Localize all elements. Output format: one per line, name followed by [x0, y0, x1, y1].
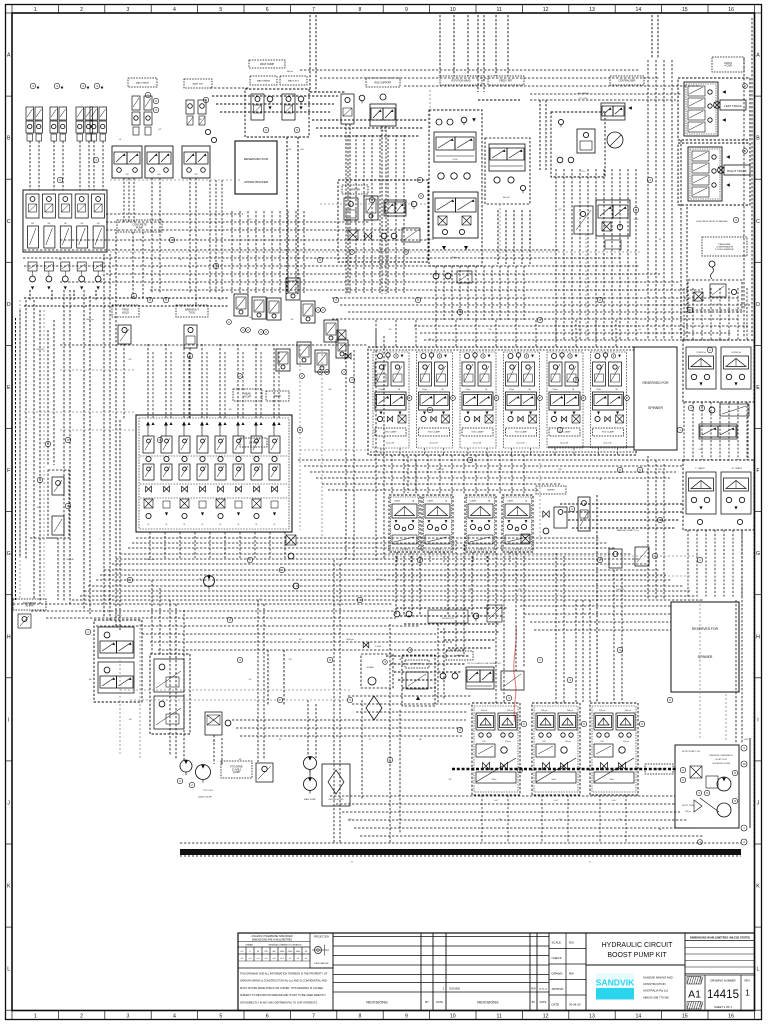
svg-text:DIMENSIONS ARE IN MILLIMETRES: DIMENSIONS ARE IN MILLIMETRES: [252, 938, 293, 941]
svg-text:SPINNER: SPINNER: [648, 406, 663, 410]
svg-text:CENT: CENT: [633, 219, 639, 221]
svg-text:RESERVED FOR: RESERVED FOR: [692, 627, 719, 631]
svg-text:CLR 400: CLR 400: [401, 549, 408, 551]
svg-text:240 psi: 240 psi: [625, 710, 632, 712]
svg-text:15: 15: [682, 1014, 688, 1020]
svg-text:240cc: 240cc: [609, 779, 614, 781]
svg-text:N/S: N/S: [569, 941, 574, 945]
svg-text:J: J: [7, 800, 10, 806]
svg-text:9: 9: [405, 1014, 408, 1020]
svg-text:9: 9: [405, 7, 408, 13]
svg-text:210 psi 3/8: 210 psi 3/8: [473, 443, 481, 445]
svg-text:TOOL: TOOL: [189, 311, 196, 314]
svg-text:220: 220: [126, 174, 129, 176]
svg-text:OR INDIRECTLY IN ANY WAY DETRI: OR INDIRECTLY IN ANY WAY DETRIMENTAL TO …: [240, 1001, 318, 1004]
svg-text:DATE: DATE: [552, 1003, 560, 1007]
svg-text:ABN 82 008 779 362: ABN 82 008 779 362: [643, 995, 669, 999]
svg-text:SUBJECT TO RETURN ON DEMAND AN: SUBJECT TO RETURN ON DEMAND AND IS NOT T…: [240, 994, 326, 997]
svg-text:21 A/9L2: 21 A/9L2: [232, 768, 242, 771]
svg-text:ROD CLAMP: ROD CLAMP: [428, 431, 441, 434]
svg-text:2M ROD: 2M ROD: [249, 442, 258, 444]
svg-text:CURVE 1A: CURVE 1A: [696, 351, 706, 354]
svg-text:210 psi 3/8: 210 psi 3/8: [429, 443, 437, 445]
svg-text:1: 1: [34, 7, 37, 13]
svg-text:DATE: DATE: [540, 1000, 547, 1004]
svg-text:MAST EXT: MAST EXT: [288, 79, 300, 82]
svg-text:RESERVED FOR: RESERVED FOR: [244, 157, 269, 161]
svg-text:ROTATION HEAD: ROTATION HEAD: [451, 79, 471, 82]
svg-text:160 L/M: 160 L/M: [503, 197, 510, 199]
svg-text:CLAMP: CLAMP: [507, 500, 514, 503]
svg-text:8: 8: [359, 7, 362, 13]
svg-text:D: D: [7, 302, 11, 308]
svg-text:ISSUED: ISSUED: [449, 987, 461, 991]
svg-text:210psi: 210psi: [553, 389, 559, 391]
svg-text:ROD CLAMP: ROD CLAMP: [515, 431, 528, 434]
svg-text:SANDVIK PUMP 2.5 cc: SANDVIK PUMP 2.5 cc: [617, 529, 641, 532]
svg-text:8L: 8L: [238, 524, 240, 526]
svg-text:DATE: DATE: [436, 1000, 443, 1004]
svg-text:160 L/M: 160 L/M: [36, 349, 44, 351]
svg-text:C: C: [7, 219, 11, 225]
svg-text:UPPER BRAKER: UPPER BRAKER: [244, 180, 269, 184]
svg-text:CLAMP: CLAMP: [394, 500, 401, 503]
svg-text:12: 12: [543, 1014, 549, 1020]
svg-text:8L: 8L: [220, 524, 222, 526]
svg-text:PUMP: PUMP: [136, 225, 144, 229]
svg-text:B: B: [7, 136, 11, 142]
svg-text:CLR 400: CLR 400: [434, 549, 441, 551]
svg-text:CLR 400: CLR 400: [514, 549, 521, 551]
svg-text:7: 7: [312, 1014, 315, 1020]
svg-text:2W: 2W: [31, 223, 34, 225]
svg-text:ROD CLAMP: ROD CLAMP: [472, 431, 485, 434]
svg-text:3000 psi: 3000 psi: [376, 579, 384, 581]
svg-text:LINEAR: LINEAR: [245, 944, 253, 947]
svg-text:BOOST PUMP 7 L/M: BOOST PUMP 7 L/M: [682, 751, 700, 753]
svg-text:A1: A1: [688, 989, 701, 1001]
svg-text:FIRST ANGLE: FIRST ANGLE: [314, 962, 329, 965]
svg-text:3000 psi: 3000 psi: [346, 639, 354, 641]
svg-text:240 psi: 240 psi: [507, 710, 514, 712]
svg-text:30-04-20: 30-04-20: [569, 1003, 581, 1007]
svg-text:8L: 8L: [202, 524, 204, 526]
svg-text:2W: 2W: [64, 223, 67, 225]
svg-text:E: E: [7, 385, 11, 391]
svg-text:13: 13: [589, 1014, 595, 1020]
svg-text:240cc: 240cc: [551, 779, 556, 781]
svg-text:3/8: 3/8: [291, 319, 294, 321]
svg-text:210psi: 210psi: [596, 389, 602, 391]
svg-text:K: K: [7, 884, 11, 890]
svg-text:240 psi: 240 psi: [685, 811, 691, 813]
svg-text:K: K: [756, 884, 760, 890]
svg-text:220: 220: [195, 174, 198, 176]
svg-text:8k: 8k: [305, 951, 307, 953]
svg-text:RESERVED FOR: RESERVED FOR: [643, 381, 670, 385]
svg-text:L.H.7: L.H.7: [494, 800, 499, 802]
svg-text:210 psi 3/8: 210 psi 3/8: [560, 443, 568, 445]
svg-text:1: 1: [745, 988, 750, 998]
svg-text:HOLD: HOLD: [122, 311, 129, 314]
svg-text:MAST RAISE: MAST RAISE: [136, 81, 150, 84]
svg-text:160 L/M: 160 L/M: [426, 239, 434, 241]
svg-text:2W: 2W: [47, 223, 50, 225]
svg-text:2W: 2W: [80, 223, 83, 225]
svg-text:DIMENSIONS IN MILLIMETRES UNL: DIMENSIONS IN MILLIMETRES UNLESS STATED: [690, 935, 750, 939]
svg-text:C: C: [756, 219, 760, 225]
svg-text:3: 3: [127, 1014, 130, 1020]
svg-text:BOOST PUMP KIT: BOOST PUMP KIT: [607, 952, 667, 959]
svg-text:MANIFOLD: MANIFOLD: [654, 768, 665, 771]
svg-text:BY: BY: [425, 1000, 429, 1004]
svg-text:H: H: [756, 634, 760, 640]
svg-text:400 BAR: 400 BAR: [366, 666, 374, 669]
svg-text:14 BAR: 14 BAR: [114, 614, 122, 617]
svg-text:160 L/M: 160 L/M: [436, 469, 444, 471]
svg-text:ROD CLAMP: ROD CLAMP: [602, 431, 615, 434]
svg-text:210 psi 3/8: 210 psi 3/8: [386, 443, 394, 445]
svg-text:SCALE: SCALE: [552, 941, 562, 945]
svg-text:DRAWN: DRAWN: [552, 972, 563, 976]
svg-text:240cc: 240cc: [491, 779, 496, 781]
svg-text:200 psi: 200 psi: [565, 741, 571, 743]
svg-text:210 psi: 210 psi: [541, 710, 548, 712]
svg-text:14: 14: [636, 7, 642, 13]
svg-text:200 psi: 200 psi: [505, 741, 511, 743]
svg-text:PTO CSO: PTO CSO: [203, 790, 213, 792]
svg-text:AUSTRALIA Pty Ltd: AUSTRALIA Pty Ltd: [643, 989, 668, 993]
svg-text:MUFFLER: MUFFLER: [412, 664, 422, 666]
svg-text:E: E: [756, 385, 760, 391]
svg-text:210psi: 210psi: [422, 389, 428, 391]
svg-text:2: 2: [80, 7, 83, 13]
svg-text:CHECK: CHECK: [552, 956, 562, 960]
svg-text:RETURN FILTER: RETURN FILTER: [329, 799, 344, 801]
svg-text:2W: 2W: [97, 223, 100, 225]
svg-text:3: 3: [127, 7, 130, 13]
svg-text:BOOST 7GPM: BOOST 7GPM: [682, 805, 694, 807]
svg-text:10: 10: [450, 1014, 456, 1020]
svg-text:G: G: [756, 551, 760, 557]
svg-text:160 L/M: 160 L/M: [66, 559, 74, 561]
svg-text:MAST RAISE: MAST RAISE: [257, 79, 271, 82]
svg-text:0-200: 0-200: [453, 159, 458, 161]
svg-text:DRIFTER: DRIFTER: [350, 189, 360, 191]
svg-text:F: F: [7, 468, 10, 474]
svg-text:4 CNR: 4 CNR: [724, 65, 731, 68]
svg-text:REVISIONS: REVISIONS: [366, 1000, 388, 1005]
svg-text:3000 psi: 3000 psi: [146, 559, 154, 561]
svg-text:HOLDBACK: HOLDBACK: [577, 92, 590, 95]
svg-text:J: J: [757, 800, 760, 806]
svg-text:1 GPM: 1 GPM: [375, 646, 381, 648]
svg-text:D: D: [756, 302, 760, 308]
svg-text:11: 11: [497, 1014, 502, 1020]
svg-text:220: 220: [158, 174, 161, 176]
svg-text:11: 11: [497, 7, 502, 13]
svg-text:QL/RP: QL/RP: [233, 772, 240, 774]
svg-text:210psi: 210psi: [379, 389, 385, 391]
svg-text:B: B: [756, 136, 760, 142]
svg-text:15: 15: [682, 7, 688, 13]
svg-text:MAIN PUMP: MAIN PUMP: [304, 798, 316, 801]
svg-text:A: A: [7, 53, 11, 59]
svg-text:210 psi: 210 psi: [599, 710, 606, 712]
svg-text:REVISIONS: REVISIONS: [477, 1000, 499, 1005]
svg-text:5: 5: [219, 7, 222, 13]
svg-text:FEED: FEED: [274, 395, 281, 398]
svg-text:8: 8: [359, 1014, 362, 1020]
svg-text:ROD CLAMP: ROD CLAMP: [385, 431, 398, 434]
svg-text:6: 6: [266, 7, 269, 13]
svg-text:4: 4: [173, 7, 176, 13]
svg-text:I: I: [8, 717, 9, 723]
svg-text:14415: 14415: [744, 739, 749, 741]
svg-text:CENTRALISER: CENTRALISER: [619, 79, 636, 82]
svg-text:75%: 75%: [581, 171, 585, 173]
svg-text:8L: 8L: [166, 524, 168, 526]
svg-text:TO ACHIEVE 100 GPM): TO ACHIEVE 100 GPM): [712, 762, 731, 765]
svg-text:04-05-20: 04-05-20: [539, 989, 548, 991]
svg-text:200 psi: 200 psi: [623, 741, 629, 743]
svg-text:SANDVIK MINING AND: SANDVIK MINING AND: [643, 976, 673, 980]
svg-text:I: I: [757, 717, 758, 723]
svg-text:REV.: REV.: [744, 979, 750, 983]
svg-text:16: 16: [728, 1014, 734, 1020]
svg-text:10: 10: [742, 762, 746, 766]
svg-text:MAST DUMP: MAST DUMP: [260, 63, 275, 66]
svg-text:L.H.7: L.H.7: [612, 800, 617, 802]
svg-text:30 BAR: 30 BAR: [26, 605, 34, 608]
svg-text:F: F: [756, 468, 759, 474]
svg-text:APPRVD: APPRVD: [552, 987, 564, 991]
svg-text:210psi: 210psi: [509, 389, 515, 391]
svg-text:FILTER RTN: FILTER RTN: [442, 618, 454, 620]
svg-text:1/2: 1/2: [37, 507, 40, 509]
svg-text:MAST EXT: MAST EXT: [193, 82, 205, 85]
svg-text:210 psi: 210 psi: [481, 710, 488, 712]
svg-text:8L: 8L: [256, 524, 258, 526]
svg-text:210 psi 3/8: 210 psi 3/8: [603, 443, 611, 445]
svg-text:CLR 400: CLR 400: [477, 549, 484, 551]
svg-text:13: 13: [589, 7, 595, 13]
svg-text:BY: BY: [532, 1000, 536, 1004]
svg-text:G: G: [7, 551, 11, 557]
svg-text:SET AT 20 L/M: SET AT 20 L/M: [715, 758, 727, 761]
svg-text:SWIVEL: SWIVEL: [547, 490, 556, 492]
svg-text:4: 4: [173, 1014, 176, 1020]
svg-text:16: 16: [728, 7, 734, 13]
svg-text:SANDVIK MINING & CONSTRUCTION: SANDVIK MINING & CONSTRUCTION Pty Ltd. A…: [240, 980, 327, 983]
svg-text:400 psi: 400 psi: [287, 71, 294, 73]
svg-text:FLOW DIVERTER: FLOW DIVERTER: [716, 249, 734, 251]
svg-text:SANDVIK: SANDVIK: [596, 978, 635, 988]
svg-text:12: 12: [543, 7, 549, 13]
svg-text:HIGH PRESS SET AT 250 BAR MAX: HIGH PRESS SET AT 250 BAR MAX: [696, 220, 728, 223]
svg-text:21A/9L2 QL/RP: 21A/9L2 QL/RP: [198, 796, 213, 799]
svg-text:7: 7: [312, 7, 315, 13]
svg-text:L.H.7: L.H.7: [554, 800, 559, 802]
svg-text:14: 14: [636, 1014, 642, 1020]
svg-text:CLAMP: CLAMP: [470, 500, 477, 503]
svg-text:160 L/M: 160 L/M: [616, 589, 624, 591]
svg-text:L: L: [757, 967, 760, 973]
svg-text:1: 1: [34, 1014, 37, 1020]
svg-text:8L: 8L: [148, 524, 150, 526]
svg-text:(PRESSURE COMPENSATOR: (PRESSURE COMPENSATOR: [709, 754, 733, 757]
svg-text:L. TRACK: L. TRACK: [695, 467, 705, 470]
svg-text:8L: 8L: [274, 524, 276, 526]
svg-text:R. TRACK: R. TRACK: [732, 467, 743, 470]
svg-text:MUST NOT BE MADE PUBLIC OR COP: MUST NOT BE MADE PUBLIC OR COPIED. THIS …: [240, 987, 323, 990]
svg-text:3000 psi: 3000 psi: [86, 319, 94, 321]
svg-text:THIS DRAWING AND ALL INFORMATI: THIS DRAWING AND ALL INFORMATION THEREON…: [240, 973, 328, 976]
svg-text:CURVE 1A: CURVE 1A: [731, 351, 741, 354]
svg-text:A: A: [756, 53, 760, 59]
svg-text:RW: RW: [569, 972, 574, 976]
svg-text:LEFT TRACK: LEFT TRACK: [724, 104, 742, 108]
svg-text:RW: RW: [531, 987, 536, 991]
svg-text:FEED / RET: FEED / RET: [499, 79, 513, 82]
svg-text:210 psi 3/8: 210 psi 3/8: [516, 443, 524, 445]
svg-text:CLAMP: CLAMP: [427, 500, 434, 503]
svg-text:8L: 8L: [184, 524, 186, 526]
svg-text:ROD SUPPORT: ROD SUPPORT: [375, 82, 392, 84]
svg-text:10: 10: [450, 7, 456, 13]
svg-text:PROJECTION: PROJECTION: [314, 937, 329, 939]
svg-text:H: H: [7, 634, 11, 640]
svg-text:L: L: [7, 967, 10, 973]
svg-text:FLOAT: FLOAT: [244, 395, 252, 398]
svg-text:210psi: 210psi: [466, 389, 472, 391]
svg-text:CONSTRUCTION: CONSTRUCTION: [643, 982, 666, 986]
svg-text:240 psi: 240 psi: [567, 710, 574, 712]
svg-text:HYDRAULIC CIRCUIT: HYDRAULIC CIRCUIT: [602, 942, 674, 949]
svg-text:DRAWING NUMBER: DRAWING NUMBER: [710, 979, 735, 983]
svg-text:GENERAL DRAWING TOLERANCE: GENERAL DRAWING TOLERANCE: [268, 944, 302, 947]
svg-text:6: 6: [266, 1014, 269, 1020]
svg-text:SHEET 1 OF 1: SHEET 1 OF 1: [714, 1005, 732, 1009]
svg-text:5: 5: [219, 1014, 222, 1020]
svg-text:14415: 14415: [707, 989, 739, 1001]
svg-text:2: 2: [80, 1014, 83, 1020]
svg-text:1/4: 1/4: [249, 317, 252, 319]
